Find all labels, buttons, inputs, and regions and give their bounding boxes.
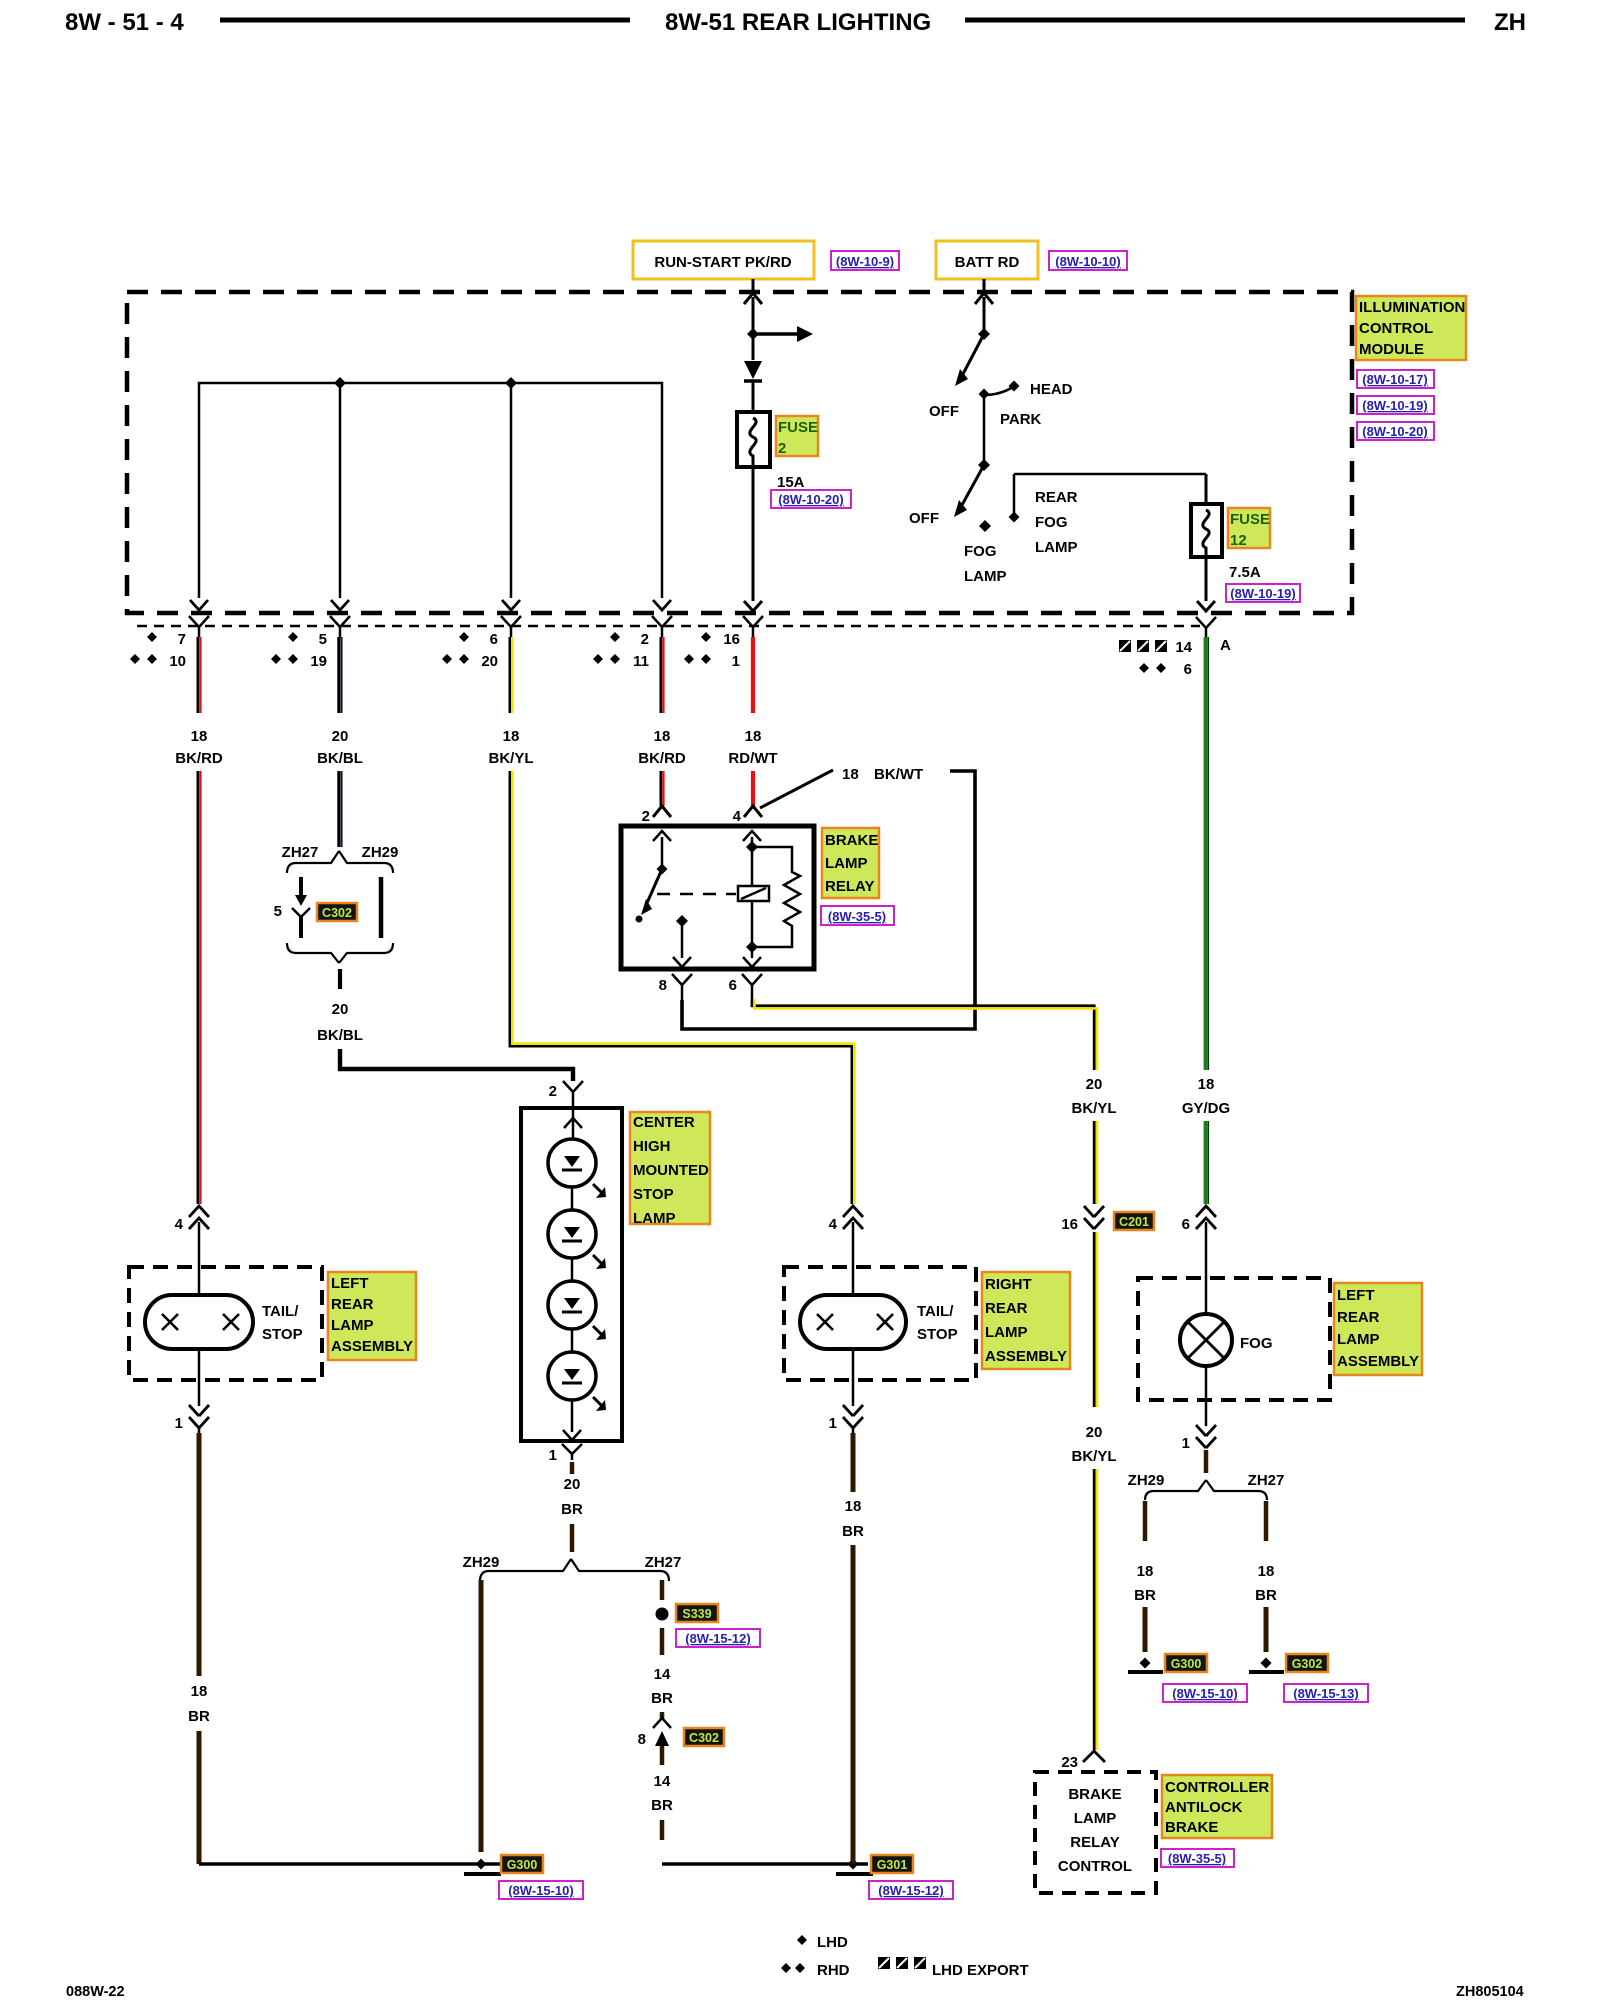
label BRAKE LAMP RELAY CONTROL [1058, 1786, 1132, 1875]
link 8W-15-12 g301 [869, 1881, 953, 1899]
label C302 lower [684, 1728, 724, 1746]
svg-text:RELAY: RELAY [825, 878, 874, 895]
svg-text:(8W-15-13): (8W-15-13) [1293, 1686, 1358, 1701]
ground G301 [662, 1859, 873, 1875]
svg-text:G301: G301 [877, 1858, 908, 1872]
link 8W-15-10 g300 [499, 1881, 583, 1899]
label ILLUMINATION CONTROL MODULE [1356, 296, 1466, 360]
label 18 BK/RD left [175, 728, 223, 767]
svg-text:ZH27: ZH27 [645, 1554, 682, 1571]
wire 20 BK/BL lower dash [338, 969, 342, 989]
LED 4 [548, 1352, 606, 1411]
svg-text:BR: BR [188, 1708, 210, 1725]
relay switch input [653, 831, 671, 875]
svg-text:LAMP: LAMP [331, 1317, 374, 1334]
svg-text:BR: BR [1134, 1587, 1156, 1604]
connector 1 left lamp [175, 1405, 209, 1433]
svg-text:CENTER: CENTER [633, 1114, 695, 1131]
svg-text:18: 18 [1198, 1076, 1215, 1093]
LED 3 [548, 1281, 606, 1340]
label 18 BR fog right [1255, 1563, 1277, 1604]
wire led4 to lamp exit [563, 1400, 581, 1440]
svg-text:5: 5 [274, 903, 282, 920]
svg-text:LAMP: LAMP [825, 855, 868, 872]
connector 4 left lamp [175, 1206, 209, 1233]
label 20 BK/BL [317, 728, 363, 767]
node RUN-START PK/RD [633, 241, 814, 279]
link 8W-10-20 fuse2 [771, 490, 851, 508]
label C302 [317, 903, 357, 921]
wire out of fog lamp [1205, 1366, 1208, 1426]
headlamp switch wiper 1 [955, 328, 990, 386]
wire out of right lamp [852, 1349, 855, 1406]
svg-text:18: 18 [191, 1683, 208, 1700]
wire into right lamp [852, 1232, 855, 1296]
svg-text:8: 8 [659, 977, 667, 994]
link 8W-10-9 [831, 251, 899, 270]
svg-text:2: 2 [641, 631, 649, 648]
svg-text:18: 18 [1137, 1563, 1154, 1580]
svg-text:(8W-15-12): (8W-15-12) [878, 1883, 943, 1898]
diamond LHD marker fog switch [979, 520, 991, 532]
right rear lamp assembly box [784, 1267, 976, 1380]
label LEFT REAR LAMP ASSEMBLY fog [1334, 1283, 1422, 1375]
label G300 left [501, 1855, 543, 1873]
label CONTROLLER ANTILOCK BRAKE [1162, 1775, 1272, 1838]
label 18 BR left [188, 1683, 210, 1725]
svg-text:C201: C201 [1119, 1215, 1149, 1229]
label REAR FOG LAMP [1035, 489, 1078, 556]
svg-text:(8W-15-12): (8W-15-12) [685, 1631, 750, 1646]
svg-text:G302: G302 [1292, 1657, 1323, 1671]
fuse F2 [737, 412, 770, 467]
svg-text:20: 20 [332, 728, 349, 745]
svg-text:12: 12 [1230, 532, 1247, 549]
label G300 fog [1165, 1654, 1207, 1672]
svg-text:ZH27: ZH27 [1248, 1472, 1285, 1489]
connector pin 2 center lamp [549, 1081, 583, 1100]
svg-text:ZH29: ZH29 [1128, 1472, 1165, 1489]
label CENTER HIGH MOUNTED STOP LAMP [630, 1112, 710, 1227]
connector 1 right lamp [829, 1405, 863, 1433]
svg-text:HEAD: HEAD [1030, 381, 1073, 398]
wire 18 BK/RD right segment2 [661, 771, 664, 806]
svg-text:LEFT: LEFT [331, 1275, 369, 1292]
svg-text:2: 2 [778, 440, 786, 457]
svg-text:20: 20 [481, 653, 498, 670]
svg-text:G300: G300 [507, 1858, 538, 1872]
svg-text:ILLUMINATION: ILLUMINATION [1359, 299, 1465, 316]
svg-text:1: 1 [1182, 1435, 1190, 1452]
link 8W-15-10 fog [1163, 1684, 1247, 1702]
svg-text:BK/YL: BK/YL [489, 750, 534, 767]
wire fuse2 down to module edge [744, 467, 762, 611]
svg-text:(8W-10-9): (8W-10-9) [836, 254, 894, 269]
wire 18 BK/RD left segment1 [198, 637, 201, 713]
wire fuse12 down to module edge [1197, 557, 1215, 611]
svg-text:7.5A: 7.5A [1229, 564, 1261, 581]
svg-text:ZH29: ZH29 [463, 1554, 500, 1571]
svg-text:RUN-START PK/RD: RUN-START PK/RD [654, 254, 791, 271]
svg-text:PARK: PARK [1000, 411, 1042, 428]
svg-text:CONTROL: CONTROL [1058, 1858, 1132, 1875]
label 20 BK/YL lower [1072, 1424, 1117, 1465]
relay actuation dashed link [657, 893, 736, 896]
brake lamp relay box [621, 826, 814, 969]
ground G300 fog [1128, 1658, 1163, 1673]
svg-text:GY/DG: GY/DG [1182, 1100, 1230, 1117]
pin 5/19 markers [271, 631, 327, 670]
wire BR fog dash [1204, 1450, 1209, 1473]
svg-text:C302: C302 [689, 1731, 719, 1745]
svg-text:FOG: FOG [1240, 1335, 1273, 1352]
label 14 BR lower [651, 1773, 673, 1814]
svg-text:ANTILOCK: ANTILOCK [1165, 1799, 1243, 1816]
svg-text:ASSEMBLY: ASSEMBLY [1337, 1353, 1419, 1370]
svg-text:2: 2 [549, 1083, 557, 1100]
svg-text:(8W-15-10): (8W-15-10) [1172, 1686, 1237, 1701]
wire 20 BK/YL segment2 [1094, 1121, 1097, 1204]
wire 18 GY/DG segment2 [1206, 1121, 1209, 1204]
pin 2/11 connector [652, 616, 672, 637]
wire out of left lamp [198, 1349, 201, 1406]
svg-text:10: 10 [169, 653, 186, 670]
svg-text:LAMP: LAMP [985, 1324, 1028, 1341]
wire into fog lamp [1205, 1232, 1208, 1316]
label FUSE 2 [776, 416, 818, 457]
wire led3-led4 [571, 1329, 574, 1352]
svg-text:LAMP: LAMP [964, 568, 1007, 585]
svg-text:23: 23 [1061, 1754, 1078, 1771]
connector pin 4 relay [733, 806, 762, 825]
pin 7/10 connector [189, 616, 209, 637]
branch arrow right [753, 326, 813, 342]
tail/stop bulb left [145, 1295, 253, 1349]
svg-text:FOG: FOG [964, 543, 997, 560]
relay pin4 internal wire [743, 831, 761, 967]
svg-text:(8W-10-10): (8W-10-10) [1055, 254, 1120, 269]
svg-text:(8W-35-5): (8W-35-5) [1168, 1851, 1226, 1866]
svg-text:ZH: ZH [1494, 9, 1526, 36]
connector C302 lower [638, 1712, 671, 1765]
wire led1-led2 [571, 1187, 574, 1210]
svg-text:REAR: REAR [331, 1296, 374, 1313]
svg-text:(8W-35-5): (8W-35-5) [828, 909, 886, 924]
label 20 BK/BL lower [317, 1001, 363, 1044]
svg-text:4: 4 [733, 808, 742, 825]
svg-text:TAIL/: TAIL/ [262, 1303, 299, 1320]
svg-text:1: 1 [549, 1447, 557, 1464]
svg-text:6: 6 [729, 977, 737, 994]
svg-text:(8W-10-20): (8W-10-20) [1362, 424, 1427, 439]
wire run-start feed into module [744, 279, 762, 360]
pin 16/1 connector [743, 616, 763, 637]
link 8W-15-12 s339 [676, 1629, 760, 1647]
svg-text:BK/BL: BK/BL [317, 750, 363, 767]
label S339 [676, 1604, 718, 1622]
link 8W-10-19 [1357, 396, 1434, 414]
wire 20 BK/BL segment1 [339, 637, 342, 713]
wire into center lamp [564, 1099, 582, 1140]
svg-text:BK/YL: BK/YL [1072, 1448, 1117, 1465]
svg-text:8W-51 REAR LIGHTING: 8W-51 REAR LIGHTING [665, 9, 931, 36]
connector pin 1 center lamp [549, 1444, 582, 1464]
pin 6/20 connector [501, 616, 521, 637]
label FUSE 12 [1228, 508, 1270, 549]
split brace ZH29/ZH27 fog [1128, 1472, 1285, 1500]
svg-text:RHD: RHD [817, 1962, 850, 1979]
svg-text:1: 1 [175, 1415, 183, 1432]
relay pin8 internal wire [673, 915, 691, 967]
fog switch wiper 2 [954, 459, 990, 517]
svg-text:FOG: FOG [1035, 514, 1068, 531]
label FOG LAMP [964, 543, 1007, 585]
label 14 BR [651, 1666, 673, 1707]
svg-text:18: 18 [845, 1498, 862, 1515]
svg-text:G300: G300 [1171, 1657, 1202, 1671]
svg-text:4: 4 [175, 1216, 184, 1233]
splice brace merge bottom [287, 943, 393, 963]
svg-text:1: 1 [829, 1415, 837, 1432]
contact PARK/HEAD [979, 381, 1020, 400]
svg-text:20: 20 [1086, 1076, 1103, 1093]
svg-text:S339: S339 [682, 1607, 711, 1621]
svg-text:FUSE: FUSE [778, 419, 818, 436]
label RIGHT REAR LAMP ASSEMBLY [982, 1272, 1070, 1369]
svg-text:20: 20 [564, 1476, 581, 1493]
svg-text:ASSEMBLY: ASSEMBLY [985, 1348, 1067, 1365]
wire BR fog ZH27 dash [1264, 1501, 1269, 1541]
pin 14/6 markers [1119, 639, 1193, 678]
svg-text:REAR: REAR [1035, 489, 1078, 506]
svg-text:6: 6 [1182, 1216, 1190, 1233]
wire 18 BR right segment2 [851, 1545, 856, 1864]
svg-text:BR: BR [651, 1690, 673, 1707]
wire 18 BK/YL segment1 [510, 637, 513, 713]
svg-text:BR: BR [1255, 1587, 1277, 1604]
svg-text:ZH29: ZH29 [362, 844, 399, 861]
svg-text:RELAY: RELAY [1070, 1834, 1119, 1851]
connector pin 8 relay [659, 974, 692, 1000]
wire 18 BR left segment2 [197, 1731, 202, 1864]
wire 18 RD/WT segment1 [751, 637, 755, 713]
label 18 BR right [842, 1498, 864, 1540]
illumination control module dashed box [127, 292, 1352, 613]
diode symbol [744, 361, 762, 412]
svg-text:RIGHT: RIGHT [985, 1276, 1032, 1293]
svg-text:LHD EXPORT: LHD EXPORT [932, 1962, 1029, 1979]
svg-text:16: 16 [723, 631, 740, 648]
wire BK/BL to center lamp [340, 1049, 573, 1081]
svg-text:TAIL/: TAIL/ [917, 1303, 954, 1320]
svg-text:RD/WT: RD/WT [728, 750, 777, 767]
label G301 [871, 1855, 913, 1873]
left rear lamp assembly box [129, 1267, 322, 1380]
wire led2-led3 [571, 1258, 574, 1281]
svg-text:18: 18 [745, 728, 762, 745]
connector C302 in ZH27 branch [274, 877, 310, 938]
wire 18 BK/RD right segment1 [661, 637, 664, 713]
svg-text:FUSE: FUSE [1230, 511, 1270, 528]
pin 7/10 markers [130, 631, 186, 670]
svg-text:BATT RD: BATT RD [955, 254, 1020, 271]
svg-text:ZH805104: ZH805104 [1456, 1984, 1524, 2000]
svg-text:11: 11 [633, 653, 649, 670]
wire BR center dash [570, 1462, 575, 1474]
wire ZH29 branch [379, 877, 384, 938]
svg-text:LAMP: LAMP [633, 1210, 676, 1227]
splice brace ZH27/ZH29 top [282, 844, 399, 873]
svg-text:(8W-10-19): (8W-10-19) [1230, 586, 1295, 601]
wire into left lamp [198, 1232, 201, 1296]
connector 23 controller [1061, 1751, 1105, 1771]
link 8W-10-17 [1357, 370, 1434, 388]
svg-text:2: 2 [642, 808, 650, 825]
link 8W-35-5 abs [1161, 1849, 1234, 1867]
center high mounted stop lamp box [521, 1108, 622, 1441]
svg-text:BK/YL: BK/YL [1072, 1100, 1117, 1117]
svg-text:BR: BR [651, 1797, 673, 1814]
svg-text:(8W-15-10): (8W-15-10) [508, 1883, 573, 1898]
wire 18 BK/WT label line [760, 766, 923, 808]
connector 1 fog lamp [1182, 1425, 1216, 1452]
wire BR below S339 [660, 1628, 665, 1655]
pin 14/6 connector A [1196, 617, 1231, 654]
svg-text:14: 14 [1175, 639, 1192, 656]
wire BR fog ZH27 lower [1264, 1607, 1269, 1652]
svg-text:MOUNTED: MOUNTED [633, 1162, 709, 1179]
link 8W-15-13 [1284, 1684, 1368, 1702]
link 8W-10-19 fuse12 [1226, 584, 1300, 602]
LED 1 [548, 1139, 606, 1198]
connector 6 fog lamp [1182, 1206, 1216, 1233]
svg-text:BK/BL: BK/BL [317, 1027, 363, 1044]
svg-text:5: 5 [319, 631, 327, 648]
legend RHD [781, 1962, 850, 1979]
label TAIL/STOP left [262, 1303, 303, 1343]
svg-text:19: 19 [310, 653, 327, 670]
junction dot bus 2 [505, 377, 517, 389]
contact REAR FOG LAMP [1009, 474, 1207, 523]
svg-text:OFF: OFF [909, 510, 939, 527]
svg-text:LAMP: LAMP [1337, 1331, 1380, 1348]
svg-text:REAR: REAR [1337, 1309, 1380, 1326]
svg-text:BRAKE: BRAKE [1165, 1819, 1218, 1836]
relay coil [738, 886, 769, 901]
svg-text:CONTROL: CONTROL [1359, 320, 1433, 337]
wire 18 BR left segment1 [197, 1433, 202, 1676]
label 18 BK/YL [489, 728, 534, 767]
wire BR fog ZH29 lower [1143, 1607, 1148, 1652]
svg-text:20: 20 [332, 1001, 349, 1018]
split brace ZH29/ZH27 center lamp [463, 1554, 682, 1581]
svg-text:088W-22: 088W-22 [66, 1984, 125, 2000]
svg-text:C302: C302 [322, 906, 352, 920]
label 18 BR fog left [1134, 1563, 1156, 1604]
wire 18 BK/YL segment2 to right lamp [510, 771, 855, 1204]
module internal bus [199, 383, 662, 598]
svg-text:OFF: OFF [929, 403, 959, 420]
svg-text:BRAKE: BRAKE [1068, 1786, 1121, 1803]
svg-text:STOP: STOP [917, 1326, 958, 1343]
fog lamp assembly box [1138, 1278, 1330, 1400]
ground G302 [1249, 1658, 1284, 1673]
svg-text:(8W-10-17): (8W-10-17) [1362, 372, 1427, 387]
wire ZH27 BR dash [660, 1580, 665, 1600]
svg-text:8: 8 [638, 1731, 646, 1748]
svg-text:MODULE: MODULE [1359, 341, 1424, 358]
junction dot bus 1 [334, 377, 346, 389]
wire 18 GY/DG segment1 [1206, 637, 1209, 1070]
controller antilock brake box [1035, 1772, 1156, 1893]
svg-text:14: 14 [654, 1773, 671, 1790]
connector pin 2 relay [642, 806, 671, 825]
svg-text:BRAKE: BRAKE [825, 832, 878, 849]
svg-text:16: 16 [1061, 1216, 1078, 1233]
link 8W-10-10 [1049, 251, 1127, 270]
label 18 RD/WT [728, 728, 777, 767]
wire 18 BK/RD left segment2 [198, 771, 201, 1204]
wire ZH29 BR to ground [479, 1580, 484, 1852]
wire 20 BK/YL relay pin6 to C201 [752, 999, 1097, 1070]
svg-text:6: 6 [490, 631, 498, 648]
svg-text:BR: BR [842, 1523, 864, 1540]
module connector dashed line [137, 625, 1200, 627]
bus output arrows [190, 600, 671, 610]
legend LHD EXPORT [878, 1957, 1029, 1979]
svg-text:LEFT: LEFT [1337, 1287, 1375, 1304]
legend LHD [797, 1934, 848, 1951]
wire 20 BK/YL to controller [1094, 1469, 1097, 1750]
svg-text:7: 7 [178, 631, 186, 648]
wire 20 BK/YL below C201 [1094, 1232, 1097, 1407]
svg-text:A: A [1220, 637, 1231, 654]
wire 18 BR right segment1 [851, 1433, 856, 1492]
svg-text:4: 4 [829, 1216, 838, 1233]
svg-text:15A: 15A [777, 474, 805, 491]
svg-text:STOP: STOP [262, 1326, 303, 1343]
label G302 [1286, 1654, 1328, 1672]
svg-text:BK/WT: BK/WT [874, 766, 923, 783]
wire BK/WT loop to pin 8 [682, 771, 975, 1029]
wire switch stem [983, 395, 986, 465]
connector pin 6 relay [729, 974, 762, 999]
label C201 [1114, 1212, 1154, 1230]
svg-text:18: 18 [191, 728, 208, 745]
link 8W-10-20 [1357, 422, 1434, 440]
svg-text:LHD: LHD [817, 1934, 848, 1951]
svg-text:18: 18 [654, 728, 671, 745]
connector 16 C201 [1061, 1206, 1104, 1233]
label LEFT REAR LAMP ASSEMBLY [328, 1272, 416, 1360]
svg-text:ZH27: ZH27 [282, 844, 319, 861]
fuse F12 [1191, 504, 1222, 557]
svg-text:8W - 51 - 4: 8W - 51 - 4 [65, 9, 184, 36]
svg-text:BK/RD: BK/RD [638, 750, 686, 767]
svg-text:(8W-10-19): (8W-10-19) [1362, 398, 1427, 413]
relay switch arm [636, 869, 663, 923]
svg-text:BR: BR [561, 1501, 583, 1518]
pin 2/11 markers [593, 631, 649, 670]
splice S339 [656, 1608, 669, 1621]
svg-text:ASSEMBLY: ASSEMBLY [331, 1338, 413, 1355]
wire BR above G301 [660, 1820, 665, 1840]
link 8W-35-5 relay [821, 906, 894, 925]
wire BR fog ZH29 dash [1143, 1501, 1148, 1541]
svg-text:STOP: STOP [633, 1186, 674, 1203]
svg-text:CONTROLLER: CONTROLLER [1165, 1779, 1269, 1796]
wire BR center dash2 [570, 1524, 575, 1552]
